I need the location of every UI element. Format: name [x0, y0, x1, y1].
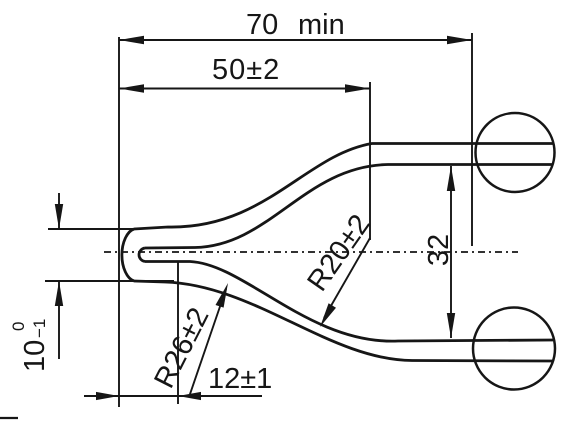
dimension line 32	[450, 166, 452, 338]
part outline: bottom arm upper edge (slot bottom)	[145, 262, 553, 342]
arrow up of 32	[447, 166, 455, 191]
extension line right of 50 x=370	[369, 82, 371, 240]
svg-text:12±1: 12±1	[208, 363, 272, 395]
dimension line 10 lower segment	[58, 281, 60, 359]
dimension line 12+-1	[84, 395, 262, 397]
svg-text:min: min	[298, 9, 345, 41]
dimension line 10 upper segment	[58, 193, 60, 229]
extension line right of 70min x=472	[471, 33, 473, 246]
part outline: slot end cap	[139, 248, 145, 262]
extension line y=281 for 10 dim	[45, 280, 174, 282]
arrow left of 70 min	[119, 36, 144, 44]
ball end top circle	[476, 113, 555, 192]
dimension line 70 min	[119, 39, 472, 41]
extension line left x=119	[118, 37, 120, 407]
arrow down of 10	[55, 204, 63, 229]
svg-text:−1: −1	[30, 319, 49, 338]
svg-text:32: 32	[423, 234, 455, 266]
centerline	[104, 251, 518, 253]
ball end bottom circle	[473, 308, 555, 390]
arrow down of 32	[447, 313, 455, 338]
leader line R20	[324, 238, 370, 318]
label 10 0/-1 rotated	[9, 319, 51, 372]
arrow left of 50	[119, 84, 144, 92]
part outline: top arm lower edge (slot top)	[145, 165, 553, 249]
part outline: bottom arm lower edge	[134, 281, 553, 361]
arrow of R26 leader	[216, 283, 229, 308]
extension line x=178 for 12 dim	[177, 262, 179, 404]
scan artifact dash bottom left	[0, 417, 18, 419]
arrow outside-left of 12	[96, 392, 119, 400]
arrow right of 70 min	[447, 36, 472, 44]
svg-text:10: 10	[19, 340, 51, 372]
svg-text:0: 0	[9, 322, 28, 331]
arrow of R20 leader	[320, 303, 336, 327]
arrow up of 10	[55, 281, 63, 306]
part outline: fork outer end cap	[122, 229, 134, 281]
dimension line 50+-2	[119, 88, 370, 90]
arrow outside-right of 12	[178, 392, 201, 400]
extension line y=229 for 10 dim	[48, 228, 140, 230]
part outline: top arm upper edge	[134, 144, 553, 230]
svg-text:70: 70	[246, 9, 278, 41]
svg-text:50±2: 50±2	[212, 54, 280, 86]
leader line R26	[189, 289, 226, 397]
arrow right of 50	[345, 84, 370, 92]
